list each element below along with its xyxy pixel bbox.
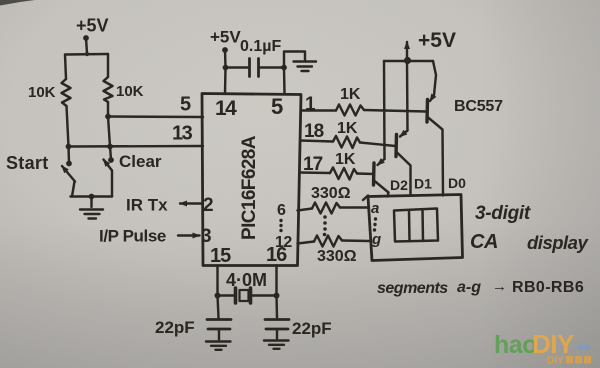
svg-text:3-digit: 3-digit xyxy=(475,203,531,224)
wire C3 to node xyxy=(259,66,285,68)
svg-text:12: 12 xyxy=(275,234,292,251)
svg-text:1K: 1K xyxy=(340,86,361,103)
wire ground stub xyxy=(90,197,92,208)
display DS1 digit divider 2 xyxy=(421,210,424,242)
wire C2 to ground xyxy=(276,329,278,339)
node +5V mid supply dot xyxy=(222,47,228,53)
node +5V right supply dot xyxy=(404,57,411,64)
svg-text:display: display xyxy=(527,232,589,253)
wire pin12 to R7 xyxy=(298,242,315,244)
svg-text:D2: D2 xyxy=(390,177,408,193)
svg-text:6: 6 xyxy=(277,202,286,219)
svg-text:5: 5 xyxy=(180,94,191,116)
svg-text:5: 5 xyxy=(271,94,283,119)
wire R3 to Q1 base xyxy=(364,110,426,112)
wire R1 to node xyxy=(67,106,69,147)
wire R4 to Q2 base xyxy=(360,143,396,147)
wire right drop to R2 xyxy=(107,54,109,77)
svg-text:1K: 1K xyxy=(337,120,358,137)
photo edge sliver top-left xyxy=(0,0,35,6)
display DS1 corner tick xyxy=(363,196,368,201)
watermark logo haoDIY xyxy=(494,329,591,367)
svg-text:g: g xyxy=(371,231,381,248)
wire emitter rail xyxy=(384,60,433,62)
ground GND2 xyxy=(294,62,317,72)
svg-text:+5V: +5V xyxy=(418,29,456,52)
wire switch ground bus xyxy=(71,195,113,197)
capacitor C1 22pF plates xyxy=(207,320,231,330)
svg-text:Start: Start xyxy=(6,153,49,173)
dots ellipsis 330 resistors xyxy=(323,215,327,236)
resistor R6 330 xyxy=(312,203,340,214)
switch SW2 Clear arm xyxy=(104,160,113,171)
capacitor C2 22pF plates xyxy=(265,320,289,330)
arrow +5V up xyxy=(406,42,408,61)
node resonator left xyxy=(215,293,221,299)
svg-text:13: 13 xyxy=(172,123,193,145)
transistor Q1 collector xyxy=(428,117,444,196)
resistor R5 1K xyxy=(330,168,357,180)
svg-text:BC557: BC557 xyxy=(454,98,503,115)
wire rail right drop to Q1 emitter xyxy=(433,61,436,95)
wire R6 to display a xyxy=(340,206,368,208)
svg-text:Clear: Clear xyxy=(119,152,162,171)
resonator X1 right plate xyxy=(249,288,253,303)
node junction cap tee xyxy=(223,65,229,71)
display DS1 outer box xyxy=(368,195,463,261)
wire R5 to Q3 base xyxy=(357,172,374,175)
wire left drop to R1 xyxy=(65,55,66,80)
svg-text:22pF: 22pF xyxy=(292,319,332,338)
resistor R7 330 xyxy=(314,236,342,247)
wire pin17 to R5 xyxy=(300,171,331,174)
arrow pin3 I/P Pulse in xyxy=(178,234,200,236)
svg-text:hao: hao xyxy=(494,331,537,359)
svg-text:a: a xyxy=(371,200,379,217)
svg-text:15: 15 xyxy=(210,245,231,267)
svg-text:D1: D1 xyxy=(414,176,432,192)
wire to resonator left xyxy=(218,294,235,296)
transistor Q2 emitter arrow xyxy=(400,131,408,137)
svg-text:330Ω: 330Ω xyxy=(311,185,351,202)
transistor Q3 emitter arrow xyxy=(378,159,385,165)
svg-text:10K: 10K xyxy=(116,83,144,100)
resonator X1 crystal box xyxy=(240,290,249,301)
wire pin15 down xyxy=(216,266,218,296)
svg-text:D0: D0 xyxy=(448,175,466,191)
display DS1 digit divider 1 xyxy=(408,210,411,241)
transistor Q3 BC557 base bar xyxy=(372,163,376,185)
svg-text:17: 17 xyxy=(303,154,323,175)
wire pin6 to R6 xyxy=(298,209,313,211)
wire node to C1 xyxy=(218,296,219,319)
svg-text:→: → xyxy=(492,278,507,295)
wire pin1 to R3 xyxy=(301,109,336,111)
wire node down to PIC pin5 xyxy=(283,68,286,94)
wire node to C2 xyxy=(275,296,278,319)
switch SW1 Start arm xyxy=(62,166,75,182)
wire resonator to right node xyxy=(251,294,277,296)
wire pin13 line to PIC xyxy=(69,145,204,148)
node junction 13-line left xyxy=(66,144,72,150)
transistor Q1 emitter arrow xyxy=(430,95,434,101)
svg-text:segments: segments xyxy=(377,280,448,297)
ground GND3 xyxy=(206,342,231,350)
wire pin16 down xyxy=(275,266,277,296)
node junction pin5/gnd xyxy=(281,65,287,71)
transistor Q1 BC557 base bar xyxy=(425,100,429,123)
wire pin5 line to PIC xyxy=(108,115,203,118)
wire R7 to display g xyxy=(342,239,369,242)
resistor R2 10K xyxy=(104,77,113,102)
wire to PIC pin14 xyxy=(224,68,227,94)
wire +5V mid stub xyxy=(224,50,227,68)
wire node up to ground xyxy=(284,52,305,68)
wire node to Clear switch xyxy=(110,147,111,160)
wire top rail xyxy=(65,53,108,56)
svg-text:3: 3 xyxy=(201,226,212,247)
svg-text:0.1µF: 0.1µF xyxy=(240,38,281,55)
resistor R3 1K xyxy=(336,105,364,116)
svg-text:IR Tx: IR Tx xyxy=(126,196,168,215)
node junction 5-line xyxy=(105,114,111,120)
resistor R4 1K xyxy=(333,136,360,148)
svg-text:+5V: +5V xyxy=(210,28,241,47)
ground GND1 xyxy=(80,210,103,219)
svg-text:RB0-RB6: RB0-RB6 xyxy=(512,279,584,296)
arrow pin2 IR Tx out xyxy=(180,202,202,204)
svg-text:18: 18 xyxy=(304,121,324,142)
transistor Q2 BC557 base bar xyxy=(394,135,398,157)
wire C1 to ground xyxy=(218,329,220,340)
svg-text:1K: 1K xyxy=(335,151,356,168)
svg-text:4·0M: 4·0M xyxy=(226,270,267,290)
wire pin18 to R4 xyxy=(301,141,334,142)
display DS1 inner window xyxy=(394,209,438,242)
svg-text:22pF: 22pF xyxy=(155,318,195,337)
svg-text:a-g: a-g xyxy=(457,279,481,296)
wire node to Start switch xyxy=(67,147,70,164)
svg-text:330Ω: 330Ω xyxy=(317,248,357,265)
svg-text:I/P Pulse: I/P Pulse xyxy=(99,227,166,246)
resistor R1 10K xyxy=(62,79,71,106)
node +5V left supply dot xyxy=(83,35,89,41)
wire node to 13-line crossing xyxy=(108,117,110,147)
wire rail center drop to Q2 emitter xyxy=(406,61,409,131)
wire +5V stub xyxy=(86,38,87,54)
svg-text:14: 14 xyxy=(215,97,237,120)
wire rail left drop to Q3 emitter xyxy=(383,61,386,159)
transistor Q2 collector xyxy=(397,152,411,196)
wire R2 to node 5 xyxy=(107,102,109,117)
node junction 13-line right xyxy=(107,144,113,150)
svg-text:1: 1 xyxy=(305,94,316,115)
svg-text:2: 2 xyxy=(203,195,214,216)
svg-text:CA: CA xyxy=(470,231,498,253)
capacitor C3 0.1uF plates xyxy=(250,59,259,77)
transistor Q3 collector xyxy=(374,181,389,197)
resonator X1 4.0M left plate xyxy=(234,288,238,303)
dots ellipsis display a-g xyxy=(373,217,377,231)
svg-text:+5V: +5V xyxy=(76,16,109,36)
svg-text:DIY: DIY xyxy=(547,356,564,367)
svg-text:DIY: DIY xyxy=(532,329,574,359)
dots ellipsis pin6-12 xyxy=(279,219,282,232)
node resonator right xyxy=(274,293,280,299)
wire to C3 xyxy=(226,66,249,68)
svg-text:PIC16F628A: PIC16F628A xyxy=(239,135,260,240)
ground GND4 xyxy=(264,341,289,349)
IC U1 PIC16F628A body xyxy=(202,94,301,266)
svg-text:10K: 10K xyxy=(28,84,56,101)
